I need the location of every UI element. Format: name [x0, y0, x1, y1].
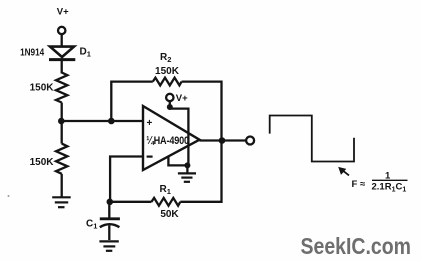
node output junction — [219, 137, 226, 144]
V+ supply terminal (diode branch) — [57, 7, 69, 35]
wire V+ terminal to pin junction — [169, 101, 171, 107]
wire node to R1 — [110, 201, 152, 203]
wire R2 right leg to output net — [182, 82, 222, 141]
V+ supply terminal (op-amp) — [166, 93, 188, 104]
square wave output waveform — [270, 116, 354, 162]
svg-text:R1: R1 — [160, 184, 171, 196]
svg-text:D1: D1 — [80, 47, 91, 59]
diode D1 — [49, 47, 75, 60]
svg-text:150K: 150K — [30, 83, 55, 94]
wire op-amp output — [200, 139, 247, 141]
svg-text:V+: V+ — [176, 93, 188, 104]
speck (scan artifact) — [8, 195, 10, 197]
node R1/C1 junction — [107, 199, 114, 206]
resistor R2 — [153, 78, 182, 86]
ground (divider) — [52, 197, 70, 207]
svg-text:C1: C1 — [86, 219, 97, 231]
wire V+ terminal to diode anode — [61, 34, 63, 45]
svg-text:150K: 150K — [155, 66, 180, 77]
svg-text:V+: V+ — [57, 7, 69, 18]
svg-text:SeekIC.com: SeekIC.com — [301, 232, 412, 259]
node R2 tap junction — [108, 118, 115, 125]
resistor R1 — [152, 198, 181, 206]
wire V- pin to ground junction — [168, 157, 187, 166]
arrow to waveform — [338, 167, 349, 176]
wire supply loop over op-amp — [170, 109, 189, 166]
node divider junction — [58, 118, 65, 125]
wire resistor to divider node — [61, 103, 63, 122]
svg-text:R2: R2 — [160, 52, 171, 64]
wire diode cathode to resistor — [61, 61, 63, 74]
ground (op-amp V- pin) — [178, 165, 196, 181]
svg-text:150K: 150K — [30, 157, 55, 168]
output terminal (open circle) — [246, 137, 254, 145]
formula F = 1/(2.1 R1 C1) — [352, 171, 408, 194]
wire R1 right leg to output net — [180, 141, 221, 202]
wire divider node to op-amp + input — [61, 120, 142, 122]
wire R2 left leg — [111, 82, 153, 121]
node V+ pin junction — [167, 104, 173, 110]
wire op-amp - input — [110, 157, 142, 202]
resistor 150K (lower divider) — [56, 121, 67, 197]
op-amp U1 (1/4 HA-4900) — [143, 106, 200, 170]
svg-text:F ≈: F ≈ — [352, 179, 366, 190]
svg-text:2.1R1C1: 2.1R1C1 — [372, 182, 407, 194]
ground (C1) — [99, 241, 118, 250]
svg-text:+: + — [147, 118, 153, 129]
svg-text:¼HA-4900: ¼HA-4900 — [146, 135, 189, 147]
resistor 150K (upper divider) — [56, 73, 67, 103]
svg-text:1N914: 1N914 — [20, 47, 45, 58]
node V- ground junction — [184, 162, 190, 168]
capacitor C1 — [100, 202, 120, 240]
svg-text:50K: 50K — [160, 209, 179, 220]
